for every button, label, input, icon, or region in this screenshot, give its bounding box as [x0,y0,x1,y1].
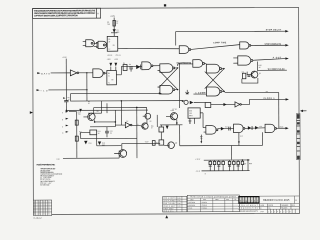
svg-text:Q6: Q6 [150,121,152,123]
diode D3 [114,63,117,67]
svg-text:READER CLOCK 4815: READER CLOCK 4815 [263,199,290,202]
gate U13 [265,124,275,132]
svg-text:9-66: 9-66 [178,206,181,208]
arrow STOP DELAY [285,30,288,32]
svg-text:STOP DELAY: STOP DELAY [266,28,282,31]
svg-text:D664: D664 [189,207,193,209]
diode D4 [136,65,140,69]
notes box top-left [33,8,101,18]
svg-text:D13: D13 [89,143,92,145]
wire Q5 emitter [94,120,96,122]
zone tick left [30,111,33,114]
svg-text:R20: R20 [78,112,81,114]
svg-text:R31: R31 [98,131,101,133]
svg-text:R10: R10 [259,65,262,67]
termination resistors R60-R67 [209,161,244,164]
wire STOP COMPLETE [251,44,286,46]
svg-text:D-16-0-2: D-16-0-2 [34,218,42,220]
svg-text:C3 .01: C3 .01 [116,55,121,57]
wire to delay box [194,101,205,103]
svg-text:T2: T2 [108,49,110,51]
svg-text:STOP COMPLETE: STOP COMPLETE [265,44,282,46]
inverter E3 [235,102,240,107]
inverter E1 [70,70,77,76]
svg-text:DEC6534: DEC6534 [189,205,196,207]
svg-text:1N3606: 1N3606 [202,207,207,209]
svg-text:9-66: 9-66 [178,203,181,205]
svg-text:B: B [205,173,206,175]
svg-text:CLOCK 1: CLOCK 1 [263,98,275,100]
node J1 [86,73,88,101]
arrow CLOCK 1 [286,98,289,100]
svg-text:+ 10 V: + 10 V [195,159,201,161]
svg-text:D1: D1 [117,30,119,32]
flip-flop gate U6a [160,64,173,73]
flip-flop gate U8a [206,64,219,73]
capacitor C10 [247,74,250,76]
wire corner STOP DELAY [176,31,287,45]
svg-text:1K: 1K [151,127,153,129]
svg-text:2N3009: 2N3009 [202,205,207,207]
resistor R40 box [159,127,164,132]
svg-text:Q2: Q2 [259,73,261,75]
wire terminals to R20 [69,111,77,113]
title block grid right [238,196,299,209]
gate U12 [234,124,244,133]
svg-text:1K: 1K [88,103,90,105]
wire W COMP PULSE [258,69,287,71]
arrow bus top [159,92,162,94]
wire mid row [90,126,115,128]
wire vertical x121 [120,101,122,125]
svg-text:E Q U I P M E N T: E Q U I P M E N T [239,205,258,207]
svg-text:E5: E5 [113,45,115,47]
zone tick bottom [165,215,168,218]
wire PA out right [225,91,279,93]
delay box E5 [205,103,211,108]
capacitor C6 on vertical [64,100,68,102]
svg-text:E17 DEC7440: E17 DEC7440 [40,184,49,186]
bus -15V termination [202,170,250,172]
flip-flop gate U6b [160,85,173,94]
capacitor C50 pair [242,159,244,161]
svg-text:9-66: 9-66 [178,197,181,199]
node dot [66,110,68,112]
svg-text:RC4815: RC4815 [281,208,287,210]
input terminal GATE [37,72,40,74]
border frame [33,7,300,214]
zone tick right [300,110,303,112]
wire to gate U7 [177,64,179,66]
resistor R21 body [75,136,78,141]
bus wire L-top [71,93,160,101]
gate U4 [142,62,151,70]
diode D12 [221,127,224,131]
bus wire L-low [66,109,148,111]
wire vertical to clock gate [278,92,280,128]
input terminal +10 [37,89,40,91]
svg-text:PROD D.BEST: PROD D.BEST [163,206,175,208]
svg-text:R2: R2 [116,21,118,23]
svg-text:C O R P O R A T I O N: C O R P O R A T I O N [239,207,259,210]
svg-text:D12: D12 [225,126,228,128]
svg-text:R68: R68 [249,163,252,165]
resistor R20 body [75,120,78,125]
enclosing block line [178,63,180,108]
transistor Q9 [168,142,175,149]
node FF1 outputs [177,67,178,68]
svg-text:C14: C14 [240,136,243,138]
svg-text:.01: .01 [68,99,70,101]
svg-text:30: 30 [108,41,110,43]
svg-text:C50: C50 [243,163,246,165]
sheet boxes row [267,209,295,213]
svg-text:E2: E2 [126,121,128,123]
diode D10 [98,141,101,145]
wire PA2 to components [116,74,121,76]
component block [188,108,200,118]
diode D2 [109,63,112,67]
capacitor C11 [105,130,109,132]
diode chain [245,127,265,130]
svg-text:E6: E6 [111,79,113,81]
svg-text:+10: +10 [40,90,48,92]
diode D11 [166,126,169,130]
transistor Q10 [119,150,127,158]
svg-text:D10: D10 [102,143,105,145]
svg-text:PDP-8 D16: PDP-8 D16 [163,211,173,213]
diode D13 [84,141,87,145]
wire row y125 [160,124,182,126]
transistor Q2 [251,71,258,78]
wire verticals from bus [101,101,103,113]
wire GATE [51,72,71,74]
wire long vertical mid [136,107,138,158]
svg-text:T1: T1 [108,82,110,84]
svg-text:LOAD: LOAD [279,125,284,128]
svg-text:B: B [62,119,63,121]
svg-text:Q9: Q9 [175,142,177,144]
transistor Q5 [88,113,95,120]
bottom wire [118,151,120,158]
svg-text:B: B [260,208,261,210]
svg-text:COPYRIGHT 1966 BY DIGITAL EQUI: COPYRIGHT 1966 BY DIGITAL EQUIPMENT CORP… [34,14,78,17]
svg-text:4: 4 [277,211,278,213]
inverter E2 [115,124,125,126]
resistor R31 box [90,130,97,135]
bus wire L-bot [94,106,147,108]
arrow A CLOCK [285,127,288,129]
arrow A OUT [285,57,288,59]
svg-text:R42: R42 [156,142,159,144]
gate U5 [179,46,189,54]
node FF2 outputs [223,68,224,69]
svg-text:+10V: +10V [110,16,115,18]
gate U9 [240,42,249,49]
pulse circle E4 [184,100,188,104]
bus wire L-mid [71,100,183,102]
capacitor C4 [129,66,132,68]
transistor Q7 [142,123,148,129]
wire CLOCK 1 [241,99,285,104]
arrow STOP COMPLETE [285,44,288,46]
wire vertical x115 [114,110,116,126]
transistor Q6 [145,113,151,119]
svg-text:FIRST USED: FIRST USED [163,208,174,210]
svg-text:DIST: DIST [260,211,264,213]
svg-text:R11: R11 [242,71,245,73]
clock input symbol [185,90,189,94]
svg-text:C2: C2 [68,97,70,99]
svg-text:L50: L50 [57,159,60,161]
transistor Q8 [170,113,177,120]
svg-text:ZB: ZB [234,199,236,201]
diode D16 [190,101,194,104]
svg-text:C4: C4 [129,64,131,66]
input terminals column [66,111,69,133]
cross-coupling wires U6 [158,68,178,90]
svg-text:R40: R40 [151,125,154,127]
zone tick top [164,4,166,6]
wire COMP TIME [191,45,240,50]
wire A CLOCK [276,127,285,129]
svg-text:NUMBER: NUMBER [281,205,289,207]
cross-coupling wires U8 [205,69,225,92]
svg-text:CHK R.JONES: CHK R.JONES [163,200,175,202]
gate U3 [93,69,103,78]
svg-text:2N3639: 2N3639 [202,202,207,204]
svg-text:DEC3639: DEC3639 [189,202,196,204]
diode D17 on bus [79,109,82,112]
wire R31 right [96,135,98,146]
resistor R41 box [159,140,164,145]
svg-text:C11: C11 [110,131,113,133]
wire terminal down [200,135,202,142]
svg-text:9-66: 9-66 [178,200,181,202]
svg-text:31: 31 [108,75,110,77]
revision table bottom-left [33,200,51,215]
wire under Q2 [242,78,258,83]
resistor R42 [152,141,155,146]
svg-text:E3: E3 [137,124,139,126]
wire +10 [48,89,86,91]
svg-text:R5: R5 [88,101,90,103]
arrow bus mid [182,100,185,102]
gate U7 [193,60,203,68]
title block left table [163,196,187,212]
capacitor C13 [228,127,230,131]
diode D15 [223,103,226,106]
svg-text:COMP TIME: COMP TIME [213,42,227,44]
wire to gate U11 [200,112,203,114]
svg-text:- 15 V: - 15 V [195,171,201,173]
svg-text:D14: D14 [259,126,262,128]
gate U10 [238,56,251,65]
gate U2 [98,41,107,48]
diode D1 [113,29,116,32]
capacitor bars termination [209,165,240,167]
one-shot box PA2 [107,70,117,84]
svg-text:UNLESS OTHERWISE INDICATED:: UNLESS OTHERWISE INDICATED: [36,163,55,166]
svg-text:CODE: CODE [268,205,273,207]
resistor R1 [113,20,115,26]
gate U11 [206,126,216,135]
resistor R11 [242,73,245,78]
wire A OUT [253,59,286,61]
one-shot box PA1 [107,36,118,51]
connector strip right [297,113,301,159]
wire junction row [95,121,116,123]
wire R31 left [81,132,137,138]
resistor R4 [123,64,127,70]
svg-text:.01: .01 [110,133,112,135]
svg-text:R4: R4 [123,63,125,65]
wire vertical from +10V [113,17,115,36]
conversion chart table [187,195,239,212]
svg-text:A OUT: A OUT [273,56,282,59]
svg-text:SIZE: SIZE [260,205,264,207]
bus wire y146 [180,144,263,146]
svg-text:750: 750 [78,114,81,116]
wire Q10 up [121,143,123,150]
wire PA1 out to gate U5 [118,47,180,50]
gate U1 [86,40,95,47]
wire L50 [63,157,119,159]
wires block down [189,118,191,124]
wire bottom row left [97,145,121,147]
svg-text:W COMP PULSE: W COMP PULSE [268,69,286,71]
wire to inverter E3 [211,103,235,105]
bus +10V termination [204,159,250,161]
svg-text:Q5: Q5 [96,111,98,113]
wire Q8 down [176,120,178,125]
digital logo block [238,196,259,204]
wire U11 out [218,128,234,130]
wire U13 feedback loop [238,133,240,146]
svg-text:GATE: GATE [41,72,51,75]
svg-text:750: 750 [107,24,110,26]
flip-flop gate U8b [206,87,219,96]
